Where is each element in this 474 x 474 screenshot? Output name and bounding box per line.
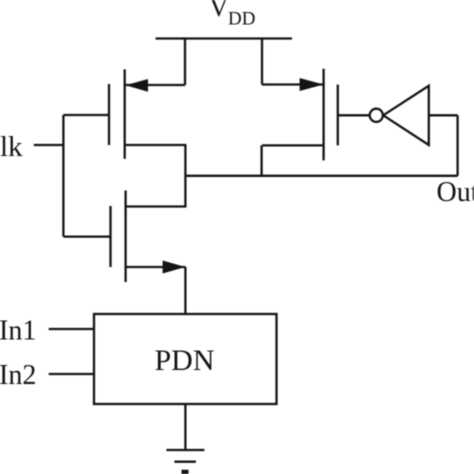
PDN block — [94, 314, 277, 404]
wire to PDN — [184, 267, 186, 314]
svg-text:lk: lk — [0, 131, 23, 163]
inverter input wire — [429, 114, 458, 116]
nmos M2 source arrow — [163, 261, 186, 274]
nmos M2 gate wire — [63, 235, 110, 237]
pmos M1 gate bar — [108, 84, 110, 145]
nmos M2 drain tap — [126, 205, 186, 207]
wire — [456, 115, 458, 176]
pmos keeper M3 source arrow — [300, 78, 324, 91]
svg-text:In2: In2 — [0, 360, 36, 391]
keeper drain vertical wire — [260, 145, 262, 175]
pmos keeper M3 gate wire — [338, 114, 370, 116]
In2 wire — [49, 373, 94, 375]
pmos keeper M3 source tap — [262, 83, 324, 85]
pmos keeper M3 drain tap — [262, 144, 324, 146]
nmos M2 channel bar — [124, 191, 126, 283]
pmos M1 gate wire — [63, 114, 109, 116]
svg-text:V: V — [209, 0, 229, 22]
ground stub wire — [184, 404, 186, 450]
ground bar 1 — [166, 449, 204, 451]
pmos M1 drain tap — [125, 144, 186, 146]
VDD rail — [156, 37, 293, 39]
pmos keeper M3 gate bar — [337, 85, 339, 146]
ground bar 3 — [182, 470, 189, 474]
clk input wire — [34, 144, 64, 146]
node line (dynamic node) — [185, 175, 457, 177]
wire — [184, 39, 186, 86]
svg-text:PDN: PDN — [154, 344, 214, 377]
nmos M2 gate bar — [109, 206, 111, 267]
svg-text:In1: In1 — [0, 316, 36, 347]
svg-text:DD: DD — [228, 9, 255, 30]
inverter bubble — [370, 109, 383, 122]
wire — [261, 39, 263, 85]
pmos M1 channel bar — [124, 69, 126, 158]
In1 wire — [49, 328, 94, 330]
pmos M1 source tap — [125, 84, 185, 86]
ground bar 2 — [174, 461, 196, 463]
pmos M1 source arrow — [125, 79, 148, 92]
nmos M2 source tap — [126, 266, 186, 268]
svg-text:Out: Out — [437, 177, 474, 208]
wire junction vertical — [184, 144, 186, 208]
pmos keeper M3 channel bar — [322, 69, 324, 161]
inverter U1 triangle — [383, 86, 429, 145]
clock vertical wire — [62, 115, 64, 237]
